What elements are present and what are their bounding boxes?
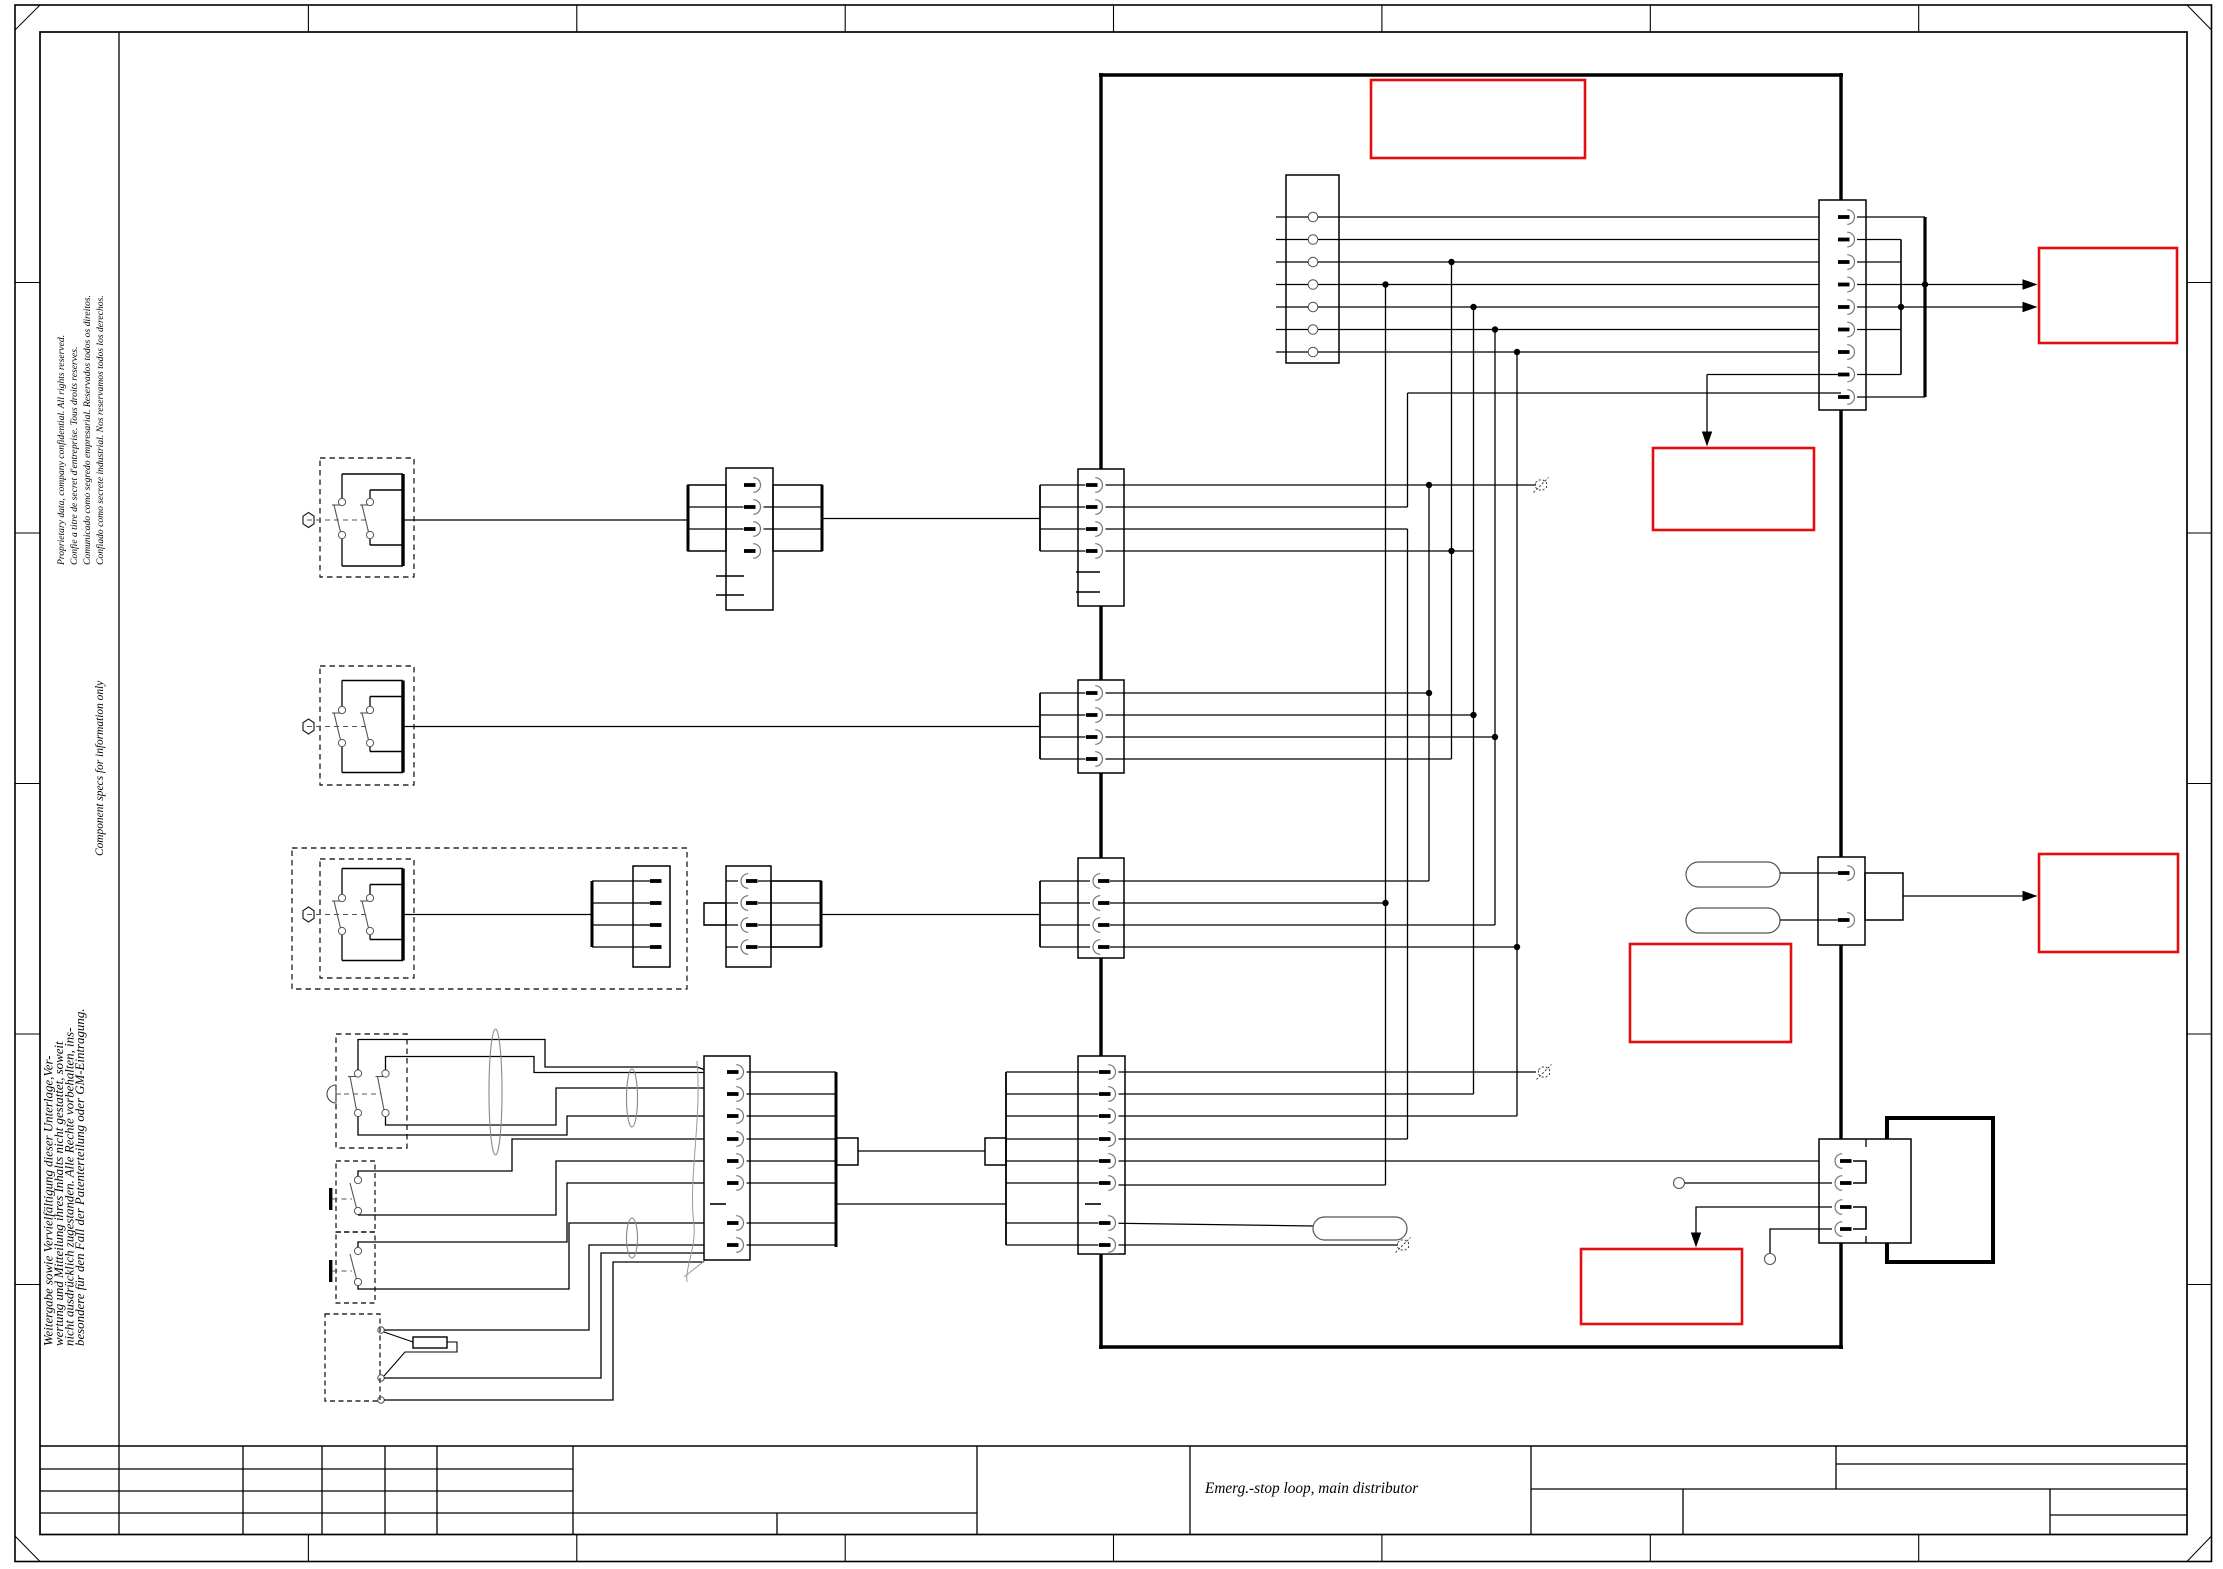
terminal A pins	[650, 879, 662, 883]
wire M3 to connector G3	[821, 914, 1040, 916]
bottom band zone ticks	[307, 1535, 309, 1562]
actuator hexagon S2	[303, 719, 314, 734]
red callout box R4 (right middle)	[2039, 854, 2178, 952]
cable end symbol D pin1	[1539, 1067, 1550, 1077]
S4 wire contact2 bottom	[386, 1088, 728, 1125]
svg-text:Confie a titre de secret d': Confie a titre de secret d'entreprise. T…	[69, 347, 80, 565]
D pin wires into box	[1099, 1071, 1536, 1073]
bus riser V1	[1385, 285, 1387, 1186]
cable shield ellipse E2	[627, 1069, 638, 1127]
corner diagonal top-right	[2187, 5, 2212, 30]
wire S3 to terminal A	[403, 914, 592, 916]
bus riser V2a	[1407, 393, 1409, 507]
S6 contacts	[354, 1247, 361, 1254]
junction dot arrow feed 2	[1898, 304, 1904, 310]
S7 wire2	[384, 1253, 704, 1378]
junction dots G2	[1426, 690, 1432, 696]
connector X1 body	[1286, 175, 1339, 363]
connector C spare stub	[710, 1203, 726, 1205]
arrow to red box R2 lower	[1901, 306, 2025, 308]
wire E pin2 to circle	[1684, 1182, 1843, 1184]
bus bar bold right of X2	[1923, 217, 1926, 397]
S6 wire top	[358, 1183, 727, 1247]
G2 pin wires into box	[1040, 692, 1429, 694]
connector C right bracket	[835, 1072, 838, 1247]
down arrow into red box R3	[1706, 375, 1708, 435]
connector C pins	[727, 1064, 747, 1080]
emergency stop switch S2 (dashed)	[320, 666, 414, 785]
bus riser V2b	[1407, 529, 1409, 1139]
bus riser V4	[1451, 262, 1453, 759]
bus riser V5	[1473, 307, 1475, 1094]
E pin jumpers	[1853, 1161, 1866, 1183]
limit switch S6 (dashed)	[336, 1232, 375, 1303]
terminal block A body	[633, 866, 670, 967]
cable marker stadium F2	[1686, 908, 1780, 933]
cable shield ellipse E1	[489, 1029, 502, 1155]
bus bar thin right of X2	[1900, 240, 1902, 375]
terminal M1 spare stubs	[716, 575, 744, 577]
main distributor enclosure top edge	[1099, 73, 1843, 76]
S5 wire top	[358, 1139, 727, 1176]
left text column divider	[118, 32, 120, 1446]
sensor box S7 (dashed)	[325, 1314, 380, 1401]
junction dots G1	[1426, 482, 1432, 488]
actuator hexagon S3	[303, 907, 314, 922]
connector G1 spare stubs	[1076, 571, 1100, 573]
terminal block M3 body	[726, 866, 771, 967]
connector F right bracket	[1865, 873, 1903, 920]
patch wire C to D lower	[836, 1203, 1006, 1205]
cable marker stadium F1	[1686, 862, 1780, 887]
terminal A left bracket	[591, 881, 594, 947]
terminal M3 right bracket	[771, 881, 821, 947]
patch wire C to D upper	[858, 1150, 985, 1152]
corner diagonal bottom-left	[15, 1536, 40, 1562]
cable marker stadium D	[1313, 1217, 1407, 1240]
cable end symbol D pin8	[1398, 1240, 1409, 1250]
svg-text:Component specs for informatio: Component specs for information only	[94, 680, 106, 856]
connector D body	[1078, 1056, 1125, 1254]
S5 wire bottom	[358, 1161, 727, 1215]
main distributor enclosure bottom edge	[1099, 1345, 1843, 1348]
S4 wire contact2 top	[386, 1057, 728, 1073]
terminal M3 pins	[738, 873, 758, 889]
S5 contacts	[354, 1176, 361, 1183]
svg-text:Confiado como secrete industri: Confiado como secrete industrial. Nos re…	[95, 295, 106, 565]
terminal M3 row lines	[726, 880, 821, 882]
main distributor enclosure left edge segments	[1099, 73, 1102, 469]
connector X1 left stubs	[1276, 216, 1308, 218]
corner diagonal bottom-right	[2187, 1536, 2212, 1562]
connector C body	[704, 1056, 750, 1260]
G1 pin wires into box	[1040, 484, 1536, 486]
red callout box R1 (top)	[1371, 80, 1585, 158]
bus riser V6	[1494, 330, 1496, 926]
connector E pins	[1832, 1153, 1852, 1169]
S4 actuator bell	[327, 1085, 336, 1103]
terminal M1 right bracket	[773, 485, 822, 551]
connector G2 body	[1078, 680, 1124, 773]
connector D spare stub	[1085, 1203, 1101, 1205]
wire S1 to terminal M1	[403, 519, 688, 521]
cable end symbol G1 pin1	[1536, 480, 1547, 490]
shield tail slant	[684, 1247, 722, 1277]
connector E body	[1819, 1139, 1911, 1243]
bus riser V3	[1428, 485, 1430, 881]
connector F body	[1818, 857, 1865, 945]
X2 pin stub wires to bus	[1857, 216, 1925, 218]
red callout box R5	[1630, 944, 1791, 1042]
S5 actuator bar	[329, 1188, 332, 1210]
wire E pin4 to circle	[1770, 1229, 1843, 1253]
S4 wire contact1 top	[358, 1040, 711, 1073]
title block grid	[40, 1445, 2187, 1447]
wire X2 pin8 to down arrow	[1707, 374, 1841, 376]
emergency stop switch S1 (dashed)	[320, 458, 414, 577]
main distributor enclosure right edge segments	[1839, 73, 1842, 200]
top band zone ticks	[307, 5, 309, 32]
group enclosure dashed box row3	[292, 848, 687, 989]
connector G3 pins	[1090, 873, 1110, 889]
connector F pins	[1838, 865, 1858, 881]
wire S2 to connector G2	[403, 726, 1040, 728]
S4 contacts	[354, 1070, 361, 1077]
connector G2 pins	[1086, 685, 1106, 701]
resistor R in S7	[384, 1332, 413, 1342]
connector G3 body	[1078, 858, 1124, 958]
svg-text:besondere für den Fall der Pat: besondere für den Fall der Patenterteilu…	[73, 1009, 87, 1347]
right band zone ticks	[2187, 282, 2212, 284]
S7 wire3	[384, 1262, 704, 1400]
svg-text:Emerg.-stop loop, main distrib: Emerg.-stop loop, main distributor	[1204, 1480, 1418, 1497]
S6 actuator bar	[329, 1260, 332, 1282]
wire E pin3 to down arrow	[1696, 1207, 1843, 1215]
S4 wire contact1 bottom	[358, 1116, 727, 1135]
emergency stop switch S3 (dashed)	[320, 859, 414, 978]
connector X2 pins	[1838, 209, 1858, 225]
arrow F to red box R4	[1903, 895, 2025, 897]
terminal M1 row lines	[688, 506, 822, 508]
terminal M1 left bracket	[688, 485, 726, 551]
wire stadium F1 to pin	[1780, 872, 1843, 874]
red callout box R2 (right top)	[2039, 248, 2177, 343]
junction dot arrow feed 1	[1922, 281, 1928, 287]
connector X1 socket circles	[1308, 212, 1318, 222]
S7 terminals	[378, 1327, 384, 1333]
connector D left bracket	[1005, 1072, 1007, 1245]
wires X1 to X2 bundle	[1318, 216, 1841, 218]
svg-text:Comunicado como segredo empres: Comunicado como segredo empresarial. Res…	[82, 295, 93, 565]
wire M1 to connector G1	[822, 518, 1040, 520]
S6 wire bottom	[358, 1223, 727, 1289]
arrow to red box R2 upper	[1925, 284, 2025, 286]
red callout box R3	[1653, 448, 1814, 530]
wire X2 pin9 from riser	[1408, 392, 1842, 394]
wire stadium F2 to pin	[1780, 919, 1843, 921]
connector G1 left bracket	[1039, 485, 1041, 551]
svg-text:Proprietary data, company con: Proprietary data, company confidential. …	[56, 335, 67, 566]
pull switch S4 (dashed)	[336, 1034, 407, 1148]
terminal M1 pins	[744, 477, 764, 493]
connector D pins	[1099, 1064, 1119, 1080]
G3 pin wires into box	[1040, 880, 1429, 882]
S7 wire1	[384, 1245, 727, 1330]
junction dots on X1 wires	[1448, 259, 1454, 265]
connector X2 body	[1819, 200, 1866, 410]
corner diagonal top-left	[15, 5, 40, 30]
limit switch S5 (dashed)	[336, 1161, 375, 1232]
left band zone ticks	[15, 282, 40, 284]
cable shield ellipse E3	[627, 1218, 638, 1258]
terminal M3 left bracket	[704, 903, 726, 925]
junction dots G3	[1382, 900, 1388, 906]
terminal block M1 body	[726, 468, 773, 610]
C bracket outlet box	[836, 1138, 858, 1165]
connector G2 left bracket	[1039, 693, 1041, 759]
D bracket inlet box	[985, 1138, 1006, 1165]
actuator hexagon S1	[303, 513, 314, 528]
bold module box	[1887, 1118, 1993, 1262]
connector G1 pins	[1086, 477, 1106, 493]
red callout box R6 (bottom)	[1581, 1249, 1742, 1324]
connector G1 body	[1078, 469, 1124, 606]
shield drain curve	[687, 1061, 698, 1282]
bus riser V7	[1516, 352, 1518, 1116]
connector G3 left bracket	[1039, 881, 1041, 947]
